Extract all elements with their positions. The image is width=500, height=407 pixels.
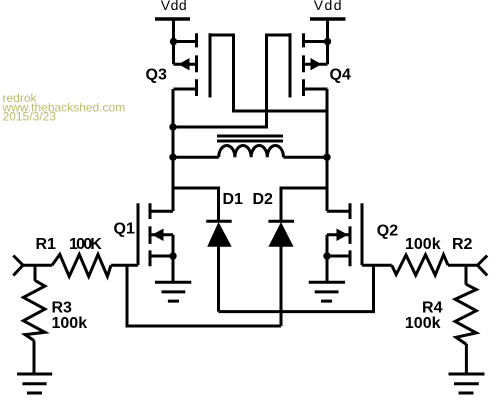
wire branch to D1 cathode [173,188,219,221]
resistor R4 zigzag [455,284,476,344]
wire Q1 source to ground [172,256,175,282]
resistor R1 zigzag [52,254,111,276]
svg-text:R4: R4 [422,299,443,316]
wire R1 to Q1 gate [111,264,138,267]
junction dot Q3 source [170,38,177,45]
terminal input left [13,256,23,276]
transistor Q2 channel line [349,203,352,266]
transistor Q1 gate plate [137,203,140,265]
transistor Q3 drain stub [174,88,197,91]
wire Q1 body to source [172,235,175,256]
wire R3 to ground [33,341,36,375]
ground R4 [449,374,485,393]
wire R2 to input right [448,264,478,267]
svg-text:100k: 100k [52,315,88,332]
svg-text:D2: D2 [253,191,274,208]
svg-text:D1: D1 [223,191,244,208]
wire to R3 [34,265,37,281]
svg-text:R3: R3 [52,299,73,316]
wire input left to R1 [23,264,52,267]
svg-text:100k: 100k [405,315,441,332]
junction dot Q2 source [323,252,330,259]
wire Q2 body to source [326,235,329,256]
wire left rail Q3 drain to Q1 drain [172,89,175,211]
svg-text:Q2: Q2 [377,223,398,240]
junction dot inductor left [169,154,176,161]
inductor L1 winding [219,146,284,158]
transistor Q3 source stub [174,40,197,43]
ground Q1 [155,282,191,301]
transistor Q3 body stub [174,63,197,66]
svg-text:Q1: Q1 [114,221,135,238]
ground R3 [17,374,52,393]
transistor Q1 channel line [149,203,152,266]
junction dot inductor right [323,154,330,161]
Vdd rail left [155,17,190,21]
transistor Q2 gate plate [361,203,364,265]
transistor Q2 source stub [327,255,350,258]
terminal input right [478,256,488,276]
transistor Q3 gate plate [209,33,212,97]
svg-text:Q4: Q4 [330,67,351,84]
transistor Q4 body stub [304,63,328,66]
inductor core line 2 [217,140,283,143]
transistor Q2 drain stub [327,210,350,213]
wire Q2 source to ground [326,256,329,282]
transistor Q1 body stub [151,233,174,236]
diode D2 anode lead (part of wire 1) [280,246,283,326]
ground Q2 [309,282,345,301]
svg-text:Vdd: Vdd [314,0,343,13]
inductor core line 1 [217,135,283,138]
wire Q2 gate to R2 [362,264,392,267]
transistor Q4 drain stub [304,88,328,91]
wire inductor right [284,156,328,159]
wire Q3 gate cross-couple (wire A) [210,35,327,111]
junction dot Q1 source [169,252,176,259]
wire branch to D2 cathode [281,188,327,221]
transistor Q4 gate plate [289,33,292,97]
transistor Q4 channel line [302,33,305,96]
diode D2 triangle [268,222,293,247]
transistor Q1 source stub [151,255,174,258]
svg-text:100K: 100K [69,236,102,253]
diode D2 cathode bar [268,220,294,223]
diode D1 triangle [207,222,232,247]
wire to R4 [465,265,468,284]
transistor Q4 body arrow [311,58,322,70]
transistor Q3 body arrow [179,58,190,70]
svg-text:2015/3/23: 2015/3/23 [3,110,57,124]
junction dot Q4 source [324,38,331,45]
diode D1 cathode bar [206,220,232,223]
transistor Q1 body arrow [152,229,164,242]
junction dot wire B left rail [169,123,176,130]
wire R4 to ground [465,344,468,374]
resistor R3 zigzag [23,280,45,340]
transistor Q2 body arrow [337,229,349,242]
resistor R2 zigzag [392,255,448,276]
wire 1: Q1 gate to D2 anode [127,265,281,326]
svg-text:Vdd: Vdd [161,0,187,13]
diode D1 anode lead [217,246,220,312]
svg-text:R1: R1 [36,236,57,253]
transistor Q1 drain stub [151,210,174,213]
wire Vdd to Q3 source [172,19,175,64]
svg-text:100k: 100k [405,236,441,253]
wire right rail Q4 drain to Q2 drain [326,89,329,211]
wire Q4 gate cross-couple (wire B) [173,35,290,127]
transistor Q4 source stub [304,40,328,43]
wire Vdd to Q4 source [326,19,329,64]
wire inductor left [173,156,219,159]
transistor Q3 channel line [195,33,198,96]
svg-text:Q3: Q3 [146,67,167,84]
svg-text:R2: R2 [452,236,473,253]
transistor Q2 body stub [327,233,350,236]
wire 2: D1 anode to Q2 gate [219,265,374,311]
Vdd rail right [310,17,346,21]
